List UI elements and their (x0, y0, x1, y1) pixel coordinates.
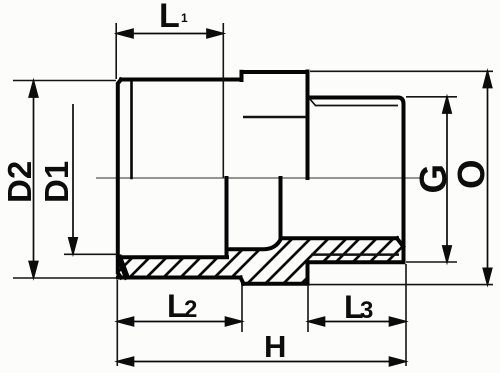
G dimension (446, 97, 448, 262)
thread root bottom (311, 253, 399, 256)
L2 dimension (118, 321, 242, 323)
O bottom ext (309, 284, 493, 286)
step down to hex bottom (section) (241, 278, 244, 284)
O top ext (310, 70, 493, 72)
label G (rotated) (413, 164, 455, 194)
label D1 (rotated) (38, 161, 75, 203)
svg-text:1: 1 (181, 11, 188, 25)
thread root top (309, 98, 398, 106)
L1 left ext (115, 23, 117, 79)
D1 bottom ext (64, 253, 117, 255)
mouth inner edge (upper half) (130, 80, 133, 178)
svg-text:L: L (159, 0, 180, 35)
small bore line (section) (281, 236, 397, 240)
socket inner bore (section) (119, 255, 227, 259)
H right ext (shared L3) (405, 264, 407, 366)
D1 dimension (72, 104, 74, 254)
svg-text:2: 2 (184, 296, 197, 323)
step up to hex (240, 72, 244, 80)
socket end wall (225, 178, 229, 257)
svg-text:O: O (451, 159, 493, 189)
D2 dimension (33, 81, 35, 278)
thread outer bottom (section) (308, 260, 404, 264)
L3 left ext (307, 286, 309, 332)
svg-text:D2: D2 (1, 161, 38, 203)
H dimension (118, 361, 406, 363)
socket outer top (121, 78, 242, 82)
svg-text:3: 3 (360, 297, 373, 324)
D2 top ext (13, 80, 116, 82)
thread end chamfer (section) (397, 238, 403, 246)
G top ext (406, 96, 457, 98)
L2 right ext (241, 286, 243, 332)
O dimension (487, 72, 489, 285)
intermediate bore + fillet (227, 239, 282, 250)
body outline: socket left part (118, 72, 404, 284)
hex right face lower step (section) (306, 262, 310, 283)
svg-text:G: G (413, 164, 455, 194)
svg-text:H: H (264, 329, 286, 364)
thread top with end radius (309, 98, 404, 263)
D2 bottom ext (13, 277, 116, 279)
socket top-left chamfer + left face (118, 80, 121, 278)
G bottom ext (406, 261, 457, 263)
L1 dimension (117, 33, 223, 35)
hex right face upper (306, 72, 310, 179)
hex outer bottom (section) (243, 282, 308, 286)
H left ext (shared L2) (116, 280, 118, 366)
label O (rotated) (451, 159, 493, 189)
label D2 (rotated) (1, 161, 38, 203)
L3 dimension (309, 321, 406, 323)
svg-text:D1: D1 (38, 161, 75, 203)
bore step edge (279, 178, 283, 238)
hex top (242, 70, 308, 74)
L1 right ext (222, 23, 224, 178)
mouth chamfer (section) (120, 258, 127, 277)
socket outer bottom (118, 276, 241, 280)
hex edge line (243, 116, 307, 119)
hatching of section (100, 230, 450, 295)
centerline axis (96, 177, 424, 179)
thin feature lines (243, 98, 399, 255)
